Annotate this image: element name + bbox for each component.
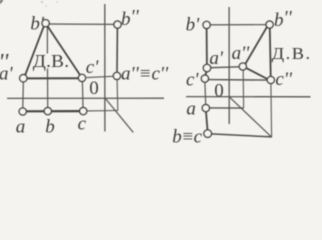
wire b'-b'' bbox=[49, 23, 114, 25]
svg-text:0: 0 bbox=[89, 78, 99, 99]
profile edge b''-c'' bbox=[269, 28, 272, 76]
svg-text:0: 0 bbox=[214, 81, 224, 102]
transfer vertical below a''c'' bbox=[116, 80, 119, 111]
svg-text:a'': a'' bbox=[232, 43, 251, 64]
profile edge a''-c'' bbox=[246, 68, 267, 79]
profile edge b''-a'' bbox=[245, 27, 266, 64]
dust specks bbox=[41, 1, 58, 7]
node b left bbox=[44, 108, 51, 115]
45-degree transfer line right bbox=[229, 97, 272, 138]
wire c'-c'' bbox=[208, 79, 267, 82]
wire a-diagonal bbox=[210, 107, 244, 109]
svg-text:Д.В.: Д.В. bbox=[272, 44, 312, 63]
connector c'-a bbox=[204, 82, 207, 104]
node c left bbox=[80, 108, 87, 115]
svg-text:c': c' bbox=[186, 70, 199, 91]
wire bc-corner bbox=[211, 134, 271, 137]
axis z vertical left bbox=[104, 4, 106, 132]
frontal projection a'-c' bbox=[205, 72, 206, 75]
corner speck bbox=[0, 0, 4, 5]
wire b'-b'' right bbox=[210, 24, 266, 26]
frontal projection b'-a' bbox=[206, 29, 208, 64]
connector a'-a bbox=[22, 82, 25, 107]
svg-text:a''≡c'': a''≡c'' bbox=[121, 64, 169, 85]
wire c'-a''c'' bbox=[87, 76, 114, 77]
node a' right bbox=[203, 64, 210, 71]
svg-text:b'': b'' bbox=[274, 7, 293, 31]
svg-text:a: a bbox=[16, 116, 25, 137]
svg-text:c': c' bbox=[86, 57, 99, 78]
svg-text:b': b' bbox=[30, 13, 45, 34]
triangle base a'-c' bbox=[27, 77, 78, 79]
svg-text:a': a' bbox=[0, 64, 14, 85]
axis Ox left bbox=[7, 97, 164, 99]
node a''=c'' left bbox=[113, 72, 120, 79]
node b=c right bbox=[204, 130, 212, 138]
transfer vertical below a'' bbox=[242, 70, 244, 108]
svg-text:Д.В.: Д.В. bbox=[33, 52, 69, 71]
svg-text:a': a' bbox=[209, 48, 224, 69]
horizontal projection a-b-c bbox=[27, 110, 80, 112]
node c' right bbox=[201, 75, 208, 82]
altitude b'-base (upper part) bbox=[46, 27, 48, 54]
node c' left bbox=[78, 74, 85, 81]
node a right bbox=[202, 105, 209, 112]
node a'' right bbox=[239, 63, 246, 70]
svg-text:c'': c'' bbox=[275, 69, 292, 90]
connector b'-b (lower part) bbox=[47, 69, 49, 108]
svg-text:b: b bbox=[45, 117, 55, 138]
node b'' left bbox=[114, 21, 121, 28]
horizontal projection a-bc bbox=[206, 112, 208, 130]
profile projection b''-a''c'' bbox=[116, 28, 118, 72]
node b' left bbox=[42, 20, 49, 27]
svg-text:c: c bbox=[78, 113, 87, 134]
svg-text:b≡c: b≡c bbox=[172, 127, 202, 148]
wire a'-a'' bbox=[211, 66, 239, 69]
node a left bbox=[19, 108, 26, 115]
wire c-transfer bbox=[87, 110, 118, 112]
svg-text:a: a bbox=[186, 99, 196, 120]
svg-text:b'': b'' bbox=[121, 7, 140, 30]
triangle edge b'-c' bbox=[48, 26, 81, 75]
45-degree transfer line left bbox=[105, 98, 133, 133]
svg-text:b': b' bbox=[186, 14, 201, 35]
transfer vertical below c'' bbox=[270, 84, 273, 137]
node b' right bbox=[203, 21, 210, 28]
axis Ox right bbox=[186, 96, 311, 98]
axis z vertical right bbox=[228, 7, 230, 124]
node b'' right bbox=[266, 21, 273, 28]
node a' left bbox=[20, 75, 27, 82]
triangle edge b'-a' bbox=[25, 26, 44, 75]
connector c'-c bbox=[81, 82, 84, 107]
node c'' right bbox=[267, 76, 274, 83]
